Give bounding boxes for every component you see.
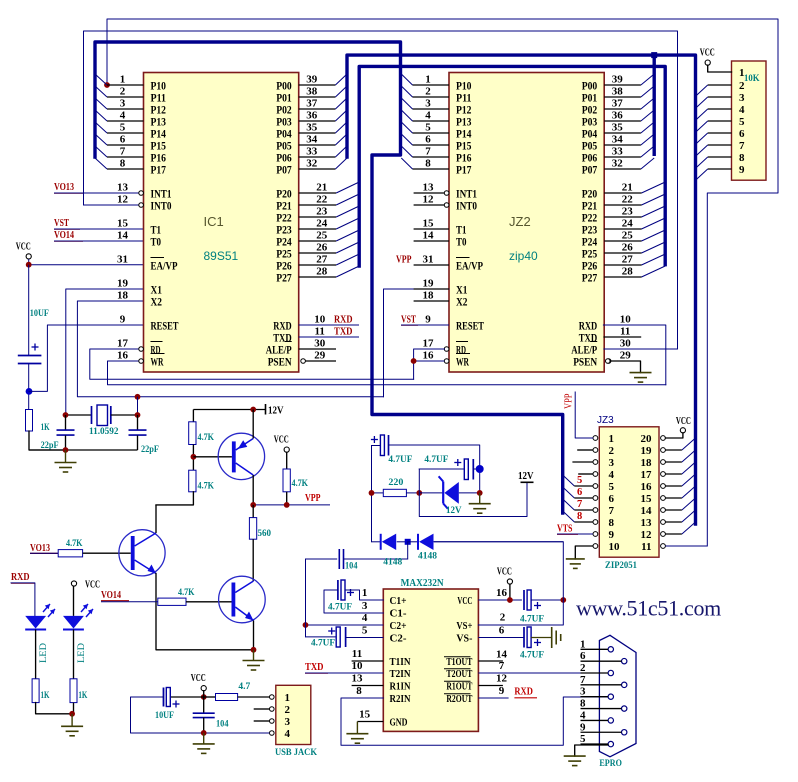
JZ3 box	[599, 427, 659, 557]
junction emitter ground	[251, 647, 257, 653]
pin stub ALE 30	[299, 348, 336, 350]
ground crystal	[65, 450, 67, 463]
svg-text:R1OUT: R1OUT	[446, 682, 472, 693]
power 12V rail	[193, 409, 265, 411]
junction 12V	[250, 407, 256, 413]
svg-text:ALE/P: ALE/P	[266, 344, 292, 356]
svg-text:33: 33	[306, 146, 318, 158]
wire INT0	[84, 204, 140, 206]
resistor R2 4.7K	[192, 410, 194, 422]
diode D1 4148	[372, 541, 381, 543]
LED D4	[63, 616, 84, 629]
svg-text:PSEN: PSEN	[573, 356, 597, 368]
svg-text:37: 37	[306, 98, 318, 110]
U2 right pin names	[446, 596, 472, 705]
svg-text:5: 5	[580, 733, 586, 745]
svg-text:VO14: VO14	[54, 230, 75, 241]
VCC at RN1	[705, 60, 710, 65]
svg-text:36: 36	[612, 110, 624, 122]
wire R3 to Q2 collector	[156, 492, 193, 505]
wire VST to T1	[54, 228, 144, 230]
svg-text:T0: T0	[456, 236, 467, 248]
pin stubs JZ2 T1 T0 INT1 INT0	[414, 193, 449, 241]
transistor Q2 NPN	[119, 530, 165, 576]
wire JZ2 RD+WR tie	[414, 349, 445, 379]
svg-text:P04: P04	[276, 128, 292, 140]
svg-text:6: 6	[577, 487, 582, 498]
svg-text:VPP: VPP	[564, 393, 575, 409]
wire 12V feed	[419, 469, 527, 517]
ground DB9	[564, 755, 586, 757]
svg-text:4148: 4148	[418, 552, 437, 562]
svg-text:1K: 1K	[41, 423, 50, 433]
svg-text:4: 4	[609, 469, 615, 481]
wire C7 to pin3	[324, 590, 383, 613]
junction C2+	[303, 622, 309, 628]
svg-text:13: 13	[117, 182, 129, 194]
svg-text:35: 35	[612, 122, 624, 134]
junction crystal right	[135, 412, 141, 418]
svg-text:36: 36	[306, 110, 318, 122]
svg-text:T1: T1	[456, 224, 467, 236]
wire crystal node drop	[137, 397, 139, 415]
wire R6 to Q2 base	[83, 552, 131, 554]
svg-text:20: 20	[641, 433, 653, 445]
svg-text:P07: P07	[582, 164, 598, 176]
junction 220/zener	[416, 490, 422, 496]
svg-text:4: 4	[362, 612, 368, 624]
svg-text:28: 28	[316, 266, 328, 278]
svg-text:www.51c51.com: www.51c51.com	[576, 596, 721, 621]
wire JZ2 X1 to crystal	[384, 289, 450, 397]
net label RXD (IC1 pin10)	[299, 324, 359, 326]
svg-text:18: 18	[641, 457, 653, 469]
svg-text:INT0: INT0	[151, 200, 172, 212]
svg-text:RD: RD	[151, 344, 161, 356]
svg-text:5: 5	[362, 625, 368, 637]
svg-text:3: 3	[120, 98, 126, 110]
svg-text:17: 17	[641, 469, 653, 481]
svg-text:6: 6	[120, 134, 126, 146]
svg-text:11: 11	[352, 648, 362, 660]
svg-text:EPRO: EPRO	[599, 759, 622, 769]
svg-text:P07: P07	[276, 164, 292, 176]
svg-text:P23: P23	[582, 224, 598, 236]
svg-text:P01: P01	[582, 92, 598, 104]
svg-text:INT1: INT1	[151, 188, 172, 200]
wire VPP rail	[253, 504, 330, 506]
svg-text:IC1: IC1	[204, 214, 224, 229]
svg-text:1: 1	[580, 638, 586, 650]
wire Q1 base	[193, 456, 232, 458]
svg-text:ALE/P: ALE/P	[571, 344, 597, 356]
svg-text:USB JACK: USB JACK	[275, 748, 318, 758]
resistor R5 560	[252, 505, 254, 518]
svg-text:27: 27	[316, 254, 328, 266]
wire VCC to RN1 pin1	[708, 65, 732, 72]
svg-text:MAX232N: MAX232N	[401, 578, 445, 589]
capacitor C12 4.7UF	[371, 446, 373, 542]
ground VS- sideways	[551, 627, 553, 648]
VCC at JZ3 pin20	[680, 428, 685, 433]
svg-text:P27: P27	[276, 272, 292, 284]
svg-text:VCC: VCC	[676, 416, 691, 427]
ground LEDs	[71, 714, 73, 727]
svg-text:10: 10	[620, 314, 632, 326]
MAX232 U2 box	[383, 589, 478, 731]
svg-text:P06: P06	[582, 152, 598, 164]
svg-text:23: 23	[316, 206, 328, 218]
svg-text:EA/VP: EA/VP	[456, 260, 483, 272]
svg-text:1: 1	[425, 74, 431, 86]
svg-text:25: 25	[316, 230, 328, 242]
net label TXD (IC1 pin11)	[299, 336, 359, 338]
svg-text:VPP: VPP	[305, 493, 321, 504]
svg-text:WR: WR	[456, 356, 470, 368]
svg-text:17: 17	[117, 338, 129, 350]
svg-text:22pF: 22pF	[141, 445, 159, 455]
wire Q2 collector	[155, 505, 157, 533]
svg-text:16: 16	[423, 350, 435, 362]
svg-text:RESET: RESET	[456, 320, 484, 332]
svg-text:2: 2	[425, 86, 431, 98]
svg-text:P00: P00	[582, 80, 598, 92]
svg-text:T1: T1	[151, 224, 162, 236]
wire RESET	[29, 325, 144, 391]
svg-text:INT1: INT1	[456, 188, 477, 200]
junction C10/VS net	[560, 597, 566, 603]
pin bubble PSEN	[606, 359, 611, 364]
svg-text:4: 4	[285, 728, 291, 740]
svg-text:2: 2	[500, 612, 506, 624]
JZ3 pins 5-8 bus entries	[563, 475, 593, 522]
svg-text:12: 12	[496, 673, 508, 685]
svg-text:5: 5	[609, 481, 615, 493]
svg-text:P15: P15	[456, 140, 472, 152]
svg-text:18: 18	[117, 290, 129, 302]
pin stub JZ2 X2	[414, 300, 449, 302]
wire R9 to ground	[73, 703, 75, 714]
svg-text:17: 17	[423, 338, 435, 350]
svg-text:P00: P00	[276, 80, 292, 92]
capacitor C9 4.7UF at C2	[306, 636, 338, 638]
svg-text:P02: P02	[276, 104, 292, 116]
wire R2IN to DB9 pin3	[341, 697, 608, 745]
svg-text:T0: T0	[151, 236, 162, 248]
svg-text:11: 11	[620, 326, 630, 338]
wire 560 to Q3 collector	[252, 539, 254, 581]
svg-text:6: 6	[425, 134, 431, 146]
svg-text:LED: LED	[39, 643, 49, 663]
wire Q1 collector to VPP	[252, 475, 254, 505]
svg-text:VS-: VS-	[456, 634, 472, 645]
svg-text:24: 24	[622, 218, 634, 230]
svg-text:7: 7	[425, 146, 431, 158]
pin numbers 13 12 15 14 31 19 18 9 17 16	[117, 182, 129, 362]
svg-text:C1+: C1+	[390, 596, 407, 607]
svg-text:5: 5	[577, 475, 582, 486]
svg-text:32: 32	[306, 158, 318, 170]
svg-text:1: 1	[609, 433, 615, 445]
wire VPP to JZ3 pin1	[575, 392, 593, 438]
svg-text:7: 7	[609, 505, 615, 517]
svg-text:JZ3: JZ3	[597, 415, 614, 426]
wire JZ3 pin10 to ground	[575, 546, 593, 559]
wire RD net	[90, 349, 414, 379]
svg-text:30: 30	[314, 338, 326, 350]
svg-text:4: 4	[425, 110, 431, 122]
VCC at LED2	[71, 581, 76, 586]
svg-text:39: 39	[306, 74, 318, 86]
svg-text:21: 21	[622, 182, 633, 194]
zener D5 12V	[419, 492, 443, 494]
svg-text:4: 4	[120, 110, 126, 122]
svg-text:4.7UF: 4.7UF	[328, 603, 352, 613]
pin numbers 10 11 30 29	[620, 314, 632, 362]
svg-text:19: 19	[117, 278, 129, 290]
svg-text:3: 3	[425, 98, 431, 110]
JZ2 box	[449, 73, 604, 373]
svg-text:6: 6	[739, 128, 745, 140]
svg-text:LED: LED	[77, 643, 87, 663]
svg-text:23: 23	[622, 206, 634, 218]
svg-text:P26: P26	[276, 260, 292, 272]
junction ground rail	[63, 447, 69, 453]
svg-text:12: 12	[117, 194, 129, 206]
wire ground rail	[29, 449, 138, 451]
svg-text:13: 13	[352, 673, 364, 685]
svg-text:RXD: RXD	[273, 320, 292, 332]
svg-text:10UF: 10UF	[155, 711, 174, 721]
svg-text:5: 5	[120, 122, 126, 134]
svg-text:X1: X1	[456, 284, 468, 296]
pin stubs P00-P07 with bus entries	[299, 74, 347, 170]
VCC at R4	[284, 447, 289, 452]
capacitor C11 4.7UF	[523, 627, 525, 648]
junction VCC/EA	[26, 262, 32, 268]
pin stubs P10-P17 with bus entries	[401, 74, 449, 170]
svg-text:3: 3	[362, 600, 368, 612]
svg-text:P25: P25	[276, 248, 292, 260]
resistor R4 4.7K	[286, 452, 288, 469]
pin stub R1OUT 12	[478, 685, 503, 687]
svg-text:P22: P22	[276, 212, 292, 224]
svg-text:2: 2	[580, 662, 586, 674]
wire VCC to LED2	[73, 586, 75, 616]
svg-text:3: 3	[285, 716, 291, 728]
svg-text:TXD: TXD	[273, 332, 292, 344]
pin stub T1OUT 14	[478, 660, 503, 662]
svg-text:VPP: VPP	[396, 255, 412, 266]
svg-text:4.7K: 4.7K	[198, 433, 215, 443]
svg-text:T2OUT: T2OUT	[446, 669, 472, 680]
wire VO13 to INT1	[54, 192, 139, 194]
svg-text:4.7UF: 4.7UF	[520, 651, 544, 661]
svg-text:8: 8	[577, 511, 582, 522]
svg-text:P17: P17	[151, 164, 167, 176]
svg-text:R1IN: R1IN	[390, 682, 411, 693]
ground transistors	[253, 650, 255, 661]
svg-text:30: 30	[620, 338, 632, 350]
resistor R7 4.7K	[158, 598, 186, 605]
svg-text:R2OUT: R2OUT	[446, 694, 472, 705]
resistor R1 1K	[26, 410, 33, 432]
svg-text:P23: P23	[276, 224, 292, 236]
svg-text:14: 14	[641, 505, 653, 517]
svg-text:12V: 12V	[518, 471, 534, 482]
svg-text:P16: P16	[151, 152, 167, 164]
junction LED ground	[69, 711, 75, 717]
JZ3 pin bubbles	[593, 436, 665, 549]
wire C10 right to VS+ net	[531, 599, 563, 601]
capacitor C8 104	[305, 559, 307, 637]
wire VS- to C11	[478, 637, 524, 639]
resistor R10 4.7	[204, 696, 216, 698]
wire GND pin15	[357, 721, 383, 723]
wire DB9 pin5 to ground	[575, 745, 608, 756]
resistor R8 1K	[32, 679, 39, 703]
svg-text:P05: P05	[276, 140, 292, 152]
svg-text:34: 34	[612, 134, 624, 146]
transistor Q3 NPN	[219, 576, 266, 623]
junction VPP a	[250, 502, 256, 508]
svg-text:1: 1	[739, 67, 745, 79]
svg-text:7: 7	[580, 674, 586, 686]
svg-text:3: 3	[609, 457, 615, 469]
svg-text:26: 26	[316, 242, 328, 254]
svg-text:WR: WR	[151, 356, 165, 368]
svg-text:4.7K: 4.7K	[198, 482, 215, 492]
diode D2 4148	[408, 541, 418, 543]
wire LED1 to R8	[35, 630, 37, 679]
svg-text:VST: VST	[401, 315, 416, 326]
svg-text:1: 1	[285, 692, 291, 704]
svg-text:VCC: VCC	[274, 435, 289, 446]
svg-text:11.0592: 11.0592	[89, 427, 119, 437]
wire JZ2 ALE pin30	[603, 348, 677, 350]
wire bus JZ2 P0 drop	[653, 55, 656, 156]
svg-text:2: 2	[285, 704, 291, 716]
svg-text:C1-: C1-	[390, 609, 408, 620]
svg-text:VCC: VCC	[85, 580, 100, 591]
svg-text:29: 29	[620, 350, 632, 362]
wire VO13 to R6	[30, 552, 58, 554]
wire X2 to crystal right	[77, 301, 383, 397]
svg-text:P16: P16	[456, 152, 472, 164]
svg-text:10K: 10K	[744, 74, 760, 84]
wire VCC to EA/VP	[28, 259, 30, 265]
svg-text:T2IN: T2IN	[390, 669, 411, 680]
svg-text:15: 15	[423, 218, 435, 230]
svg-text:VO13: VO13	[54, 182, 74, 193]
svg-text:14: 14	[496, 649, 508, 661]
svg-text:16: 16	[641, 481, 653, 493]
svg-text:22: 22	[316, 194, 328, 206]
USB JACK box	[276, 685, 311, 744]
wire pin16 VCC	[478, 599, 522, 601]
svg-text:P25: P25	[582, 248, 598, 260]
svg-text:5: 5	[739, 116, 745, 128]
pin numbers 13 12 15 14 31 19 18 9 17 16	[423, 182, 435, 362]
svg-text:15: 15	[359, 709, 371, 721]
svg-text:P20: P20	[582, 188, 598, 200]
svg-text:VCC: VCC	[700, 48, 715, 59]
svg-text:37: 37	[612, 98, 624, 110]
svg-text:7: 7	[120, 146, 126, 158]
svg-text:RXD: RXD	[579, 320, 598, 332]
svg-text:P14: P14	[456, 128, 472, 140]
svg-text:P03: P03	[582, 116, 598, 128]
wire USB pin4	[204, 732, 270, 734]
junction USB VCC	[201, 694, 207, 700]
svg-text:14: 14	[423, 230, 435, 242]
svg-text:38: 38	[306, 86, 318, 98]
svg-text:8: 8	[609, 517, 615, 529]
junction D1/D2 (blue)	[405, 539, 411, 545]
U2 OUT overlines	[444, 657, 471, 694]
svg-text:PSEN: PSEN	[268, 356, 292, 368]
svg-text:2: 2	[609, 445, 615, 457]
svg-text:2: 2	[120, 86, 126, 98]
resistor R9 1K	[70, 679, 77, 703]
svg-text:VO13: VO13	[30, 543, 50, 554]
wire C7 to pin1	[345, 590, 383, 600]
svg-text:P12: P12	[151, 104, 167, 116]
svg-text:33: 33	[612, 146, 624, 158]
svg-text:X2: X2	[151, 296, 163, 308]
svg-text:6: 6	[499, 625, 505, 637]
U2 left pin names	[390, 596, 411, 729]
svg-text:4.7K: 4.7K	[178, 588, 195, 598]
svg-text:P13: P13	[151, 116, 167, 128]
transistor Q1 PNP	[218, 433, 264, 479]
svg-text:12: 12	[641, 529, 653, 541]
junction crystal-right top	[135, 394, 141, 400]
svg-text:19: 19	[641, 445, 653, 457]
svg-text:VO14: VO14	[101, 590, 122, 601]
svg-text:VCC: VCC	[497, 567, 512, 578]
svg-text:15: 15	[117, 218, 129, 230]
svg-text:1K: 1K	[41, 691, 50, 701]
svg-text:2: 2	[739, 80, 745, 92]
wire pin20 to VCC	[665, 433, 683, 438]
pin stubs P20-P27 with bus entries	[299, 182, 360, 278]
svg-text:4.7UF: 4.7UF	[520, 615, 544, 625]
pin stub T1IN 11	[352, 660, 384, 662]
svg-text:P05: P05	[582, 140, 598, 152]
svg-text:8: 8	[739, 152, 745, 164]
svg-text:10UF: 10UF	[30, 309, 49, 319]
wire bus P0 (IC1 P0x - JZ2 P0x - RN1 - JZ3 P1x thick bus)	[347, 55, 696, 524]
resistor R3 4.7K	[189, 470, 196, 492]
junction crystal left	[63, 412, 69, 418]
svg-text:12V: 12V	[268, 406, 284, 417]
svg-text:1: 1	[362, 587, 368, 599]
svg-text:R2IN: R2IN	[390, 694, 411, 705]
svg-text:P10: P10	[151, 80, 167, 92]
wire JZ2 RXD pin10 to IC1 WR net	[603, 325, 665, 385]
svg-text:18: 18	[423, 290, 435, 302]
svg-text:P06: P06	[276, 152, 292, 164]
resistor R11 220	[372, 492, 384, 494]
wire VO14 to T0	[54, 240, 144, 242]
junction Q1 base node	[191, 454, 197, 460]
wire RXD to LED1	[11, 583, 35, 616]
svg-text:7: 7	[577, 499, 582, 510]
power 12V bar	[521, 481, 534, 483]
svg-text:9: 9	[425, 314, 431, 326]
svg-text:TXD: TXD	[334, 327, 353, 338]
